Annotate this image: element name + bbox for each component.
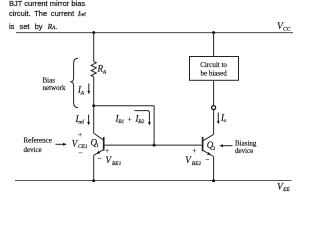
node: Q2 emitter on VEE — [212, 179, 215, 182]
label RA — [97, 64, 107, 76]
label IB1 + IB2 — [115, 113, 145, 125]
VCC rail — [16, 32, 293, 34]
transistor Q2 — [203, 134, 214, 141]
svg-text:−: − — [205, 155, 209, 164]
svg-text:Bias: Bias — [43, 76, 56, 84]
svg-text:ref: ref — [78, 119, 84, 126]
svg-text:Reference: Reference — [24, 137, 52, 145]
label Bias network — [43, 76, 66, 92]
current arrow Io — [217, 113, 219, 122]
svg-text:o: o — [224, 118, 227, 124]
caption text — [9, 0, 86, 35]
svg-text:+: + — [192, 146, 196, 155]
wire: VCC branch to circuit box — [213, 33, 215, 57]
svg-text:+: + — [105, 146, 109, 155]
svg-text:−: − — [78, 149, 82, 158]
svg-text:device: device — [24, 146, 42, 154]
resistor RA — [91, 62, 96, 77]
label Q1 — [91, 137, 100, 149]
label Biasing device — [235, 139, 257, 154]
svg-text:network: network — [43, 84, 66, 92]
circuit-to-be-biased box — [190, 57, 239, 81]
label VBE2 with polarity — [185, 146, 209, 167]
node: VCC to biased-circuit branch — [212, 31, 215, 34]
current arrow Iref — [88, 115, 90, 123]
wire: Q1 emitter to VEE — [93, 155, 95, 180]
svg-text:+: + — [128, 114, 132, 123]
svg-text:B1: B1 — [118, 119, 124, 125]
label IA — [77, 84, 85, 96]
brace for bias network — [70, 58, 78, 107]
svg-text:BE2: BE2 — [192, 161, 202, 167]
svg-text:2: 2 — [213, 146, 216, 152]
svg-text:Circuit to: Circuit to — [200, 61, 227, 69]
overline arrow for IB2 — [135, 111, 150, 123]
label VBE1 with polarity — [97, 146, 121, 167]
svg-text:B2: B2 — [138, 119, 144, 125]
wire: RA to node A — [93, 77, 95, 106]
svg-text:device: device — [235, 147, 253, 155]
VEE rail — [15, 180, 292, 182]
wire: Q2 emitter to VEE — [213, 157, 215, 181]
node: Q1 emitter on VEE — [92, 179, 95, 182]
svg-text:CC: CC — [283, 27, 291, 33]
svg-text:BE1: BE1 — [112, 161, 122, 167]
label VEE — [277, 183, 290, 194]
current arrow IA — [88, 84, 90, 92]
wire: node circle to Q2 collector — [213, 110, 215, 135]
svg-text:EE: EE — [282, 187, 290, 193]
svg-text:A: A — [102, 70, 107, 76]
wire: node A to right — [94, 105, 154, 107]
label Iref — [75, 114, 85, 126]
arrow: reference device pointer — [56, 143, 64, 145]
label Q2 — [207, 140, 216, 152]
label VCE1 with polarity — [72, 130, 88, 158]
node: base wire junction dot — [153, 144, 156, 147]
wire: node A to Q1 collector — [93, 106, 95, 133]
wire: down to base node — [153, 106, 155, 145]
open node circle — [212, 106, 216, 110]
label VCC — [277, 22, 291, 33]
label Io — [220, 112, 227, 124]
label Reference device — [24, 137, 52, 154]
wire: base Q1 to Q2 — [105, 144, 203, 146]
arrow: biasing device pointer — [223, 145, 233, 147]
svg-text:be biased: be biased — [200, 69, 227, 77]
node: VCC to RA branch — [92, 31, 95, 34]
node A junction dot — [92, 104, 95, 107]
svg-text:A: A — [80, 90, 85, 96]
label Circuit to be biased — [200, 61, 227, 77]
svg-text:1: 1 — [96, 143, 99, 149]
transistor Q1 — [94, 133, 104, 140]
svg-text:−: − — [97, 154, 101, 163]
svg-text:+: + — [78, 130, 82, 139]
wire: VCC down to resistor RA — [93, 33, 95, 62]
wire: box to node circle — [213, 80, 215, 105]
